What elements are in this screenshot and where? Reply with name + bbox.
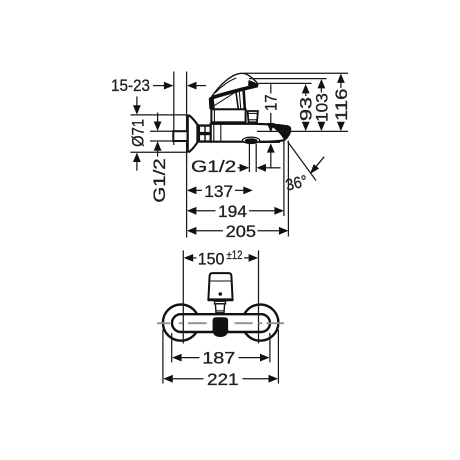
- body capsule: [172, 314, 270, 332]
- svg-text:17: 17: [263, 94, 281, 111]
- svg-text:G1/2: G1/2: [151, 158, 169, 203]
- svg-text:±12: ±12: [227, 248, 243, 262]
- extension line 205: [287, 141, 289, 237]
- dimension 116 (rotated): [333, 74, 351, 132]
- svg-text:221: 221: [207, 371, 239, 389]
- dimension 17 (rotated): [263, 84, 281, 168]
- extension lines 150: [182, 250, 184, 343]
- svg-text:150: 150: [198, 250, 225, 268]
- diverter knob: [248, 111, 258, 122]
- dimension G1/2 outlet row: [191, 158, 281, 176]
- dimension 205 row: [187, 223, 289, 241]
- escutcheon circle right: [242, 305, 278, 341]
- dimension 150 +-12: [184, 248, 258, 268]
- extension line 194: [283, 141, 285, 216]
- dimension 103 (rotated): [313, 79, 331, 131]
- aerator under spout: [243, 137, 281, 143]
- body tube: [211, 124, 291, 142]
- angle 36: [284, 142, 324, 195]
- dimension 187: [172, 333, 270, 368]
- svg-text:G1/2: G1/2: [191, 158, 236, 176]
- outlet extension lines: [248, 144, 250, 172]
- escutcheon cone (side view): [188, 115, 197, 153]
- extension line 103: [249, 78, 327, 80]
- dimension 221: [163, 330, 279, 390]
- escutcheon circle left: [163, 305, 199, 341]
- spout mouth dark: [272, 125, 290, 140]
- cartridge cap block: [211, 109, 245, 122]
- dimension 15-23: [111, 77, 206, 95]
- dimension 194 row: [187, 203, 284, 221]
- extension line 116 top: [244, 72, 349, 74]
- svg-text:36°: 36°: [284, 172, 309, 194]
- dimension 93 (rotated): [298, 84, 316, 131]
- lever handle (side view): [209, 73, 259, 109]
- supply pipe nipple: [173, 131, 187, 141]
- svg-text:15-23: 15-23: [111, 77, 150, 95]
- svg-text:187: 187: [202, 350, 235, 368]
- dimension Ø71: [129, 97, 187, 171]
- baseline for heights: [257, 130, 348, 132]
- svg-text:137: 137: [204, 183, 233, 201]
- centerline dashes: [157, 322, 284, 324]
- handle front view: [208, 273, 233, 300]
- handle neck front: [215, 301, 226, 313]
- extension line 93: [259, 82, 312, 84]
- svg-text:116: 116: [333, 89, 351, 121]
- svg-text:205: 205: [226, 223, 257, 241]
- svg-text:Ø71: Ø71: [129, 119, 147, 147]
- spout front dark: [212, 317, 228, 337]
- svg-text:194: 194: [218, 203, 247, 221]
- svg-text:103: 103: [313, 93, 331, 122]
- wire wall line right / dimension reference: [186, 72, 188, 238]
- union nut block: [198, 124, 211, 142]
- dimension 137 row: [187, 183, 253, 201]
- wire wall line left: [173, 72, 175, 146]
- dimension G1/2 supply pipe (left, rotated): [150, 113, 173, 203]
